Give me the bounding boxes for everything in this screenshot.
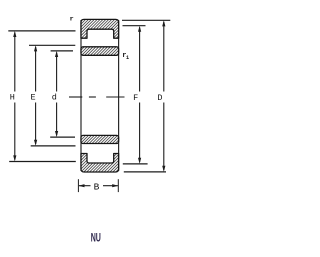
centerline axis [69,96,125,98]
extension line E top [29,44,75,46]
dimension F [138,26,141,164]
extension line F top [123,25,146,27]
extension line H top [8,30,75,32]
dimension d [55,51,58,137]
svg-text:B: B [94,182,100,193]
extension line D bottom [124,171,166,173]
wire left face line [80,20,82,171]
outer ring top section [81,19,119,38]
extension line E bottom [31,145,76,147]
dimension H [13,31,16,162]
extension line d bottom [50,136,75,138]
svg-text:d: d [52,93,57,103]
extension line d top [51,50,73,52]
extension line H bottom [9,161,76,163]
wire right face line [118,20,120,171]
dimension D [162,20,165,172]
inner ring bottom section [81,135,119,143]
svg-text:1: 1 [126,55,129,61]
extension line D top [122,19,170,21]
svg-text:F: F [133,93,138,103]
svg-text:H: H [10,93,15,103]
svg-text:D: D [157,93,162,103]
svg-text:r: r [70,15,74,23]
extension line F bottom [123,163,148,165]
outer ring bottom section [81,154,119,173]
svg-text:NU: NU [91,230,101,244]
inner ring top section [81,47,119,56]
dimension E [34,45,37,146]
svg-text:E: E [30,93,35,103]
dimension B [78,179,118,192]
